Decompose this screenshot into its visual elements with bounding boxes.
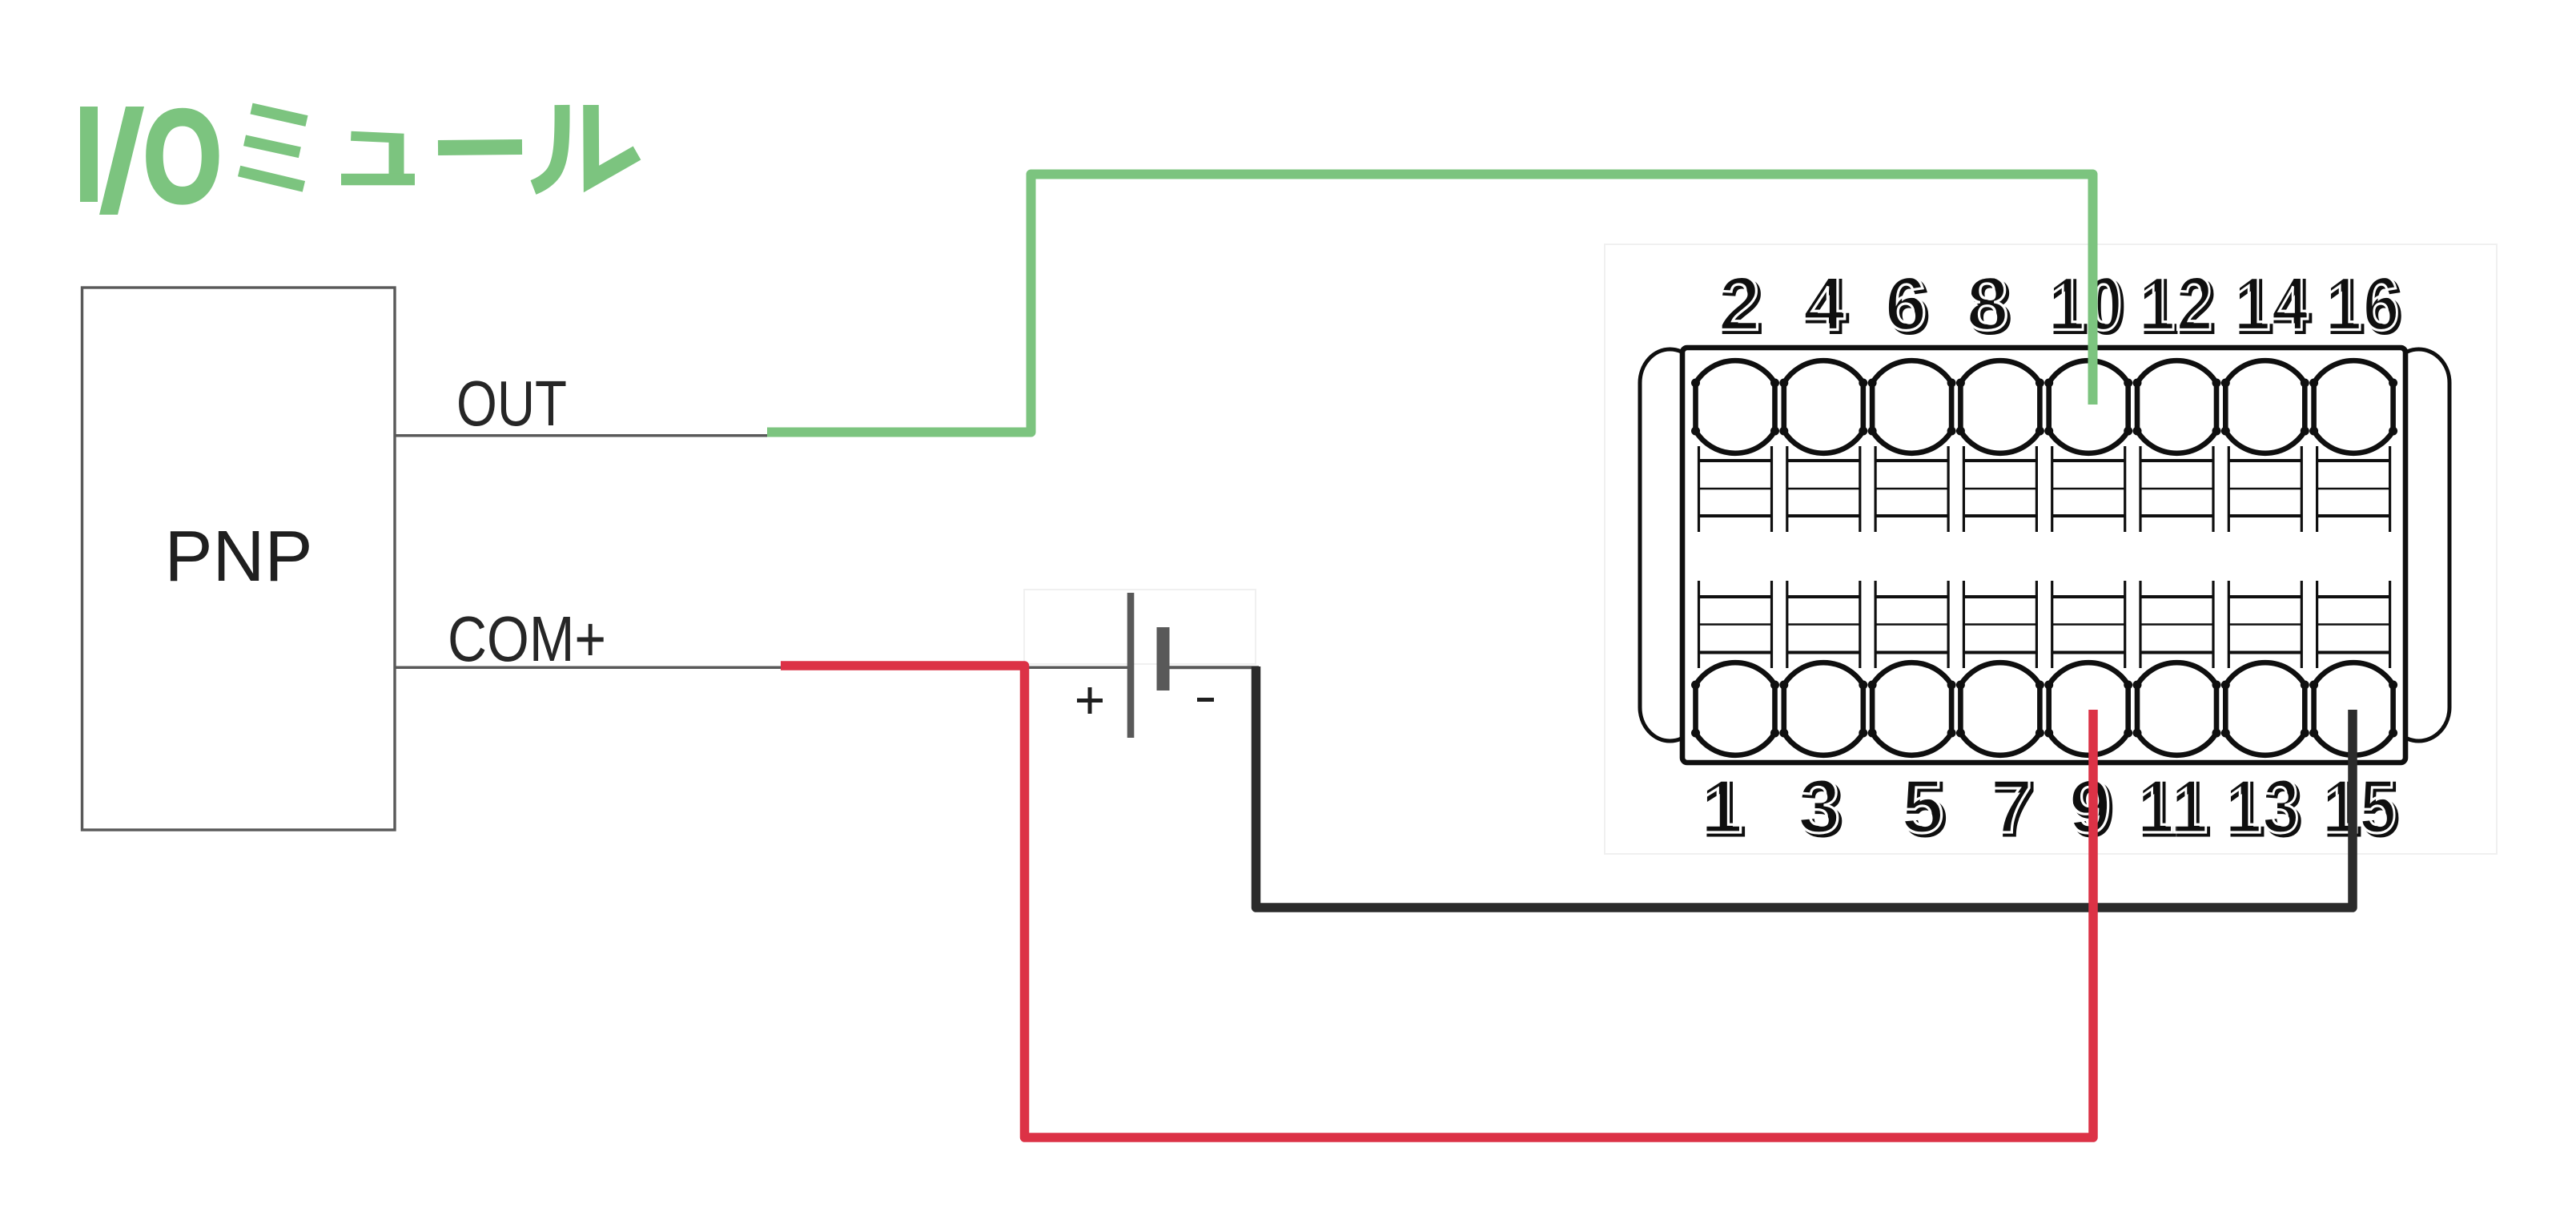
svg-text:11: 11 [2136, 763, 2208, 849]
connector terminal circle pin 8 [1960, 360, 2040, 453]
svg-text:14: 14 [2233, 261, 2309, 347]
pin number label 14 [2233, 261, 2312, 350]
svg-text:13: 13 [2224, 763, 2300, 849]
green wire [767, 175, 2093, 433]
pin number label 15 [2321, 763, 2400, 852]
title katakana YU [341, 135, 415, 179]
connector terminal circle pin 15 [2314, 662, 2393, 755]
svg-text:16: 16 [2325, 261, 2400, 347]
PNP box [82, 288, 396, 830]
wire battery minus gray [1163, 666, 1259, 669]
connector terminal circle pin 7 [1960, 662, 2040, 755]
svg-text:10: 10 [2048, 261, 2123, 347]
connector terminal circle pin 14 [2225, 360, 2305, 453]
battery negative plate [1157, 627, 1170, 690]
connector clamp lower column 3 [1787, 581, 1860, 668]
connector right ear [2388, 349, 2449, 741]
svg-text:15: 15 [2321, 763, 2397, 849]
battery image faint frame [1024, 590, 1256, 664]
connector clamp lower column 5 [1875, 581, 1948, 668]
pin number label 2 [1718, 261, 1763, 350]
battery plus label [1077, 687, 1103, 714]
connector clamp lower column 1 [1699, 581, 1772, 668]
wire COM+ gray left [395, 666, 1127, 669]
title katakana long dash [438, 147, 522, 148]
connector terminal circle pin 2 [1696, 360, 1775, 453]
pin number label 7 [1990, 763, 2035, 852]
svg-text:12: 12 [2138, 261, 2213, 347]
svg-text:8: 8 [1966, 261, 2008, 347]
connector clamp upper column 4 [1787, 446, 1860, 532]
connector clamp upper column 14 [2228, 446, 2301, 532]
connector terminal circle pin 3 [1784, 662, 1863, 755]
svg-text:COM+: COM+ [448, 603, 606, 674]
svg-text:3: 3 [1798, 763, 1840, 849]
connector clamp lower column 11 [2140, 581, 2213, 668]
connector terminal circle pin 16 [2314, 360, 2393, 453]
pin number label 13 [2224, 763, 2303, 852]
svg-text:1: 1 [1700, 763, 1742, 849]
title slash [99, 107, 144, 215]
svg-text:5: 5 [1901, 763, 1943, 849]
connector clamp upper column 10 [2052, 446, 2125, 532]
svg-text:7: 7 [1990, 763, 2032, 849]
battery positive plate [1127, 593, 1135, 738]
pin number label 1 [1700, 763, 1746, 852]
pin number label 5 [1901, 763, 1947, 852]
wire OUT gray [395, 434, 770, 437]
title I/O (green) [80, 83, 222, 231]
connector terminal circle pin 13 [2225, 662, 2305, 755]
black wire [1256, 666, 2353, 908]
connector clamp lower column 7 [1963, 581, 2036, 668]
connector terminal circle pin 9 [2049, 662, 2128, 755]
pin number label 3 [1798, 763, 1843, 852]
connector clamp lower column 15 [2317, 581, 2390, 668]
connector clamp lower column 13 [2228, 581, 2301, 668]
connector clamp upper column 16 [2317, 446, 2390, 532]
connector clamp lower column 9 [2052, 581, 2125, 668]
connector terminal circle pin 6 [1872, 360, 1951, 453]
title letter I [80, 107, 98, 202]
pin number label 9 [2068, 763, 2114, 852]
connector terminal circle pin 1 [1696, 662, 1775, 755]
connector clamp upper column 12 [2140, 446, 2213, 532]
connector image faint frame [1605, 244, 2497, 854]
red wire [781, 666, 2093, 1137]
pin number label 12 [2138, 261, 2216, 350]
svg-text:4: 4 [1802, 261, 1845, 347]
connector clamp upper column 6 [1875, 446, 1948, 532]
pin number label 4 [1802, 261, 1848, 350]
connector terminal circle pin 12 [2137, 360, 2216, 453]
title katakana RU [533, 105, 637, 187]
connector body [1682, 348, 2405, 763]
title katakana MI [239, 109, 307, 187]
svg-text:O: O [143, 83, 223, 231]
connector clamp upper column 2 [1699, 446, 1772, 532]
connector terminal circle pin 10 [2049, 360, 2128, 453]
battery minus label [1197, 698, 1214, 702]
svg-text:PNP: PNP [164, 517, 312, 597]
connector terminal circle pin 11 [2137, 662, 2216, 755]
pin number label 10 [2048, 261, 2126, 350]
pin number label 6 [1884, 261, 1930, 350]
svg-text:OUT: OUT [456, 368, 567, 439]
svg-text:2: 2 [1718, 261, 1760, 347]
svg-text:6: 6 [1884, 261, 1927, 347]
connector left ear [1640, 349, 1700, 741]
pin number label 11 [2136, 763, 2211, 852]
connector clamp upper column 8 [1963, 446, 2036, 532]
pin number label 8 [1966, 261, 2011, 350]
connector terminal circle pin 4 [1784, 360, 1863, 453]
connector terminal circle pin 5 [1872, 662, 1951, 755]
pin number label 16 [2325, 261, 2403, 350]
